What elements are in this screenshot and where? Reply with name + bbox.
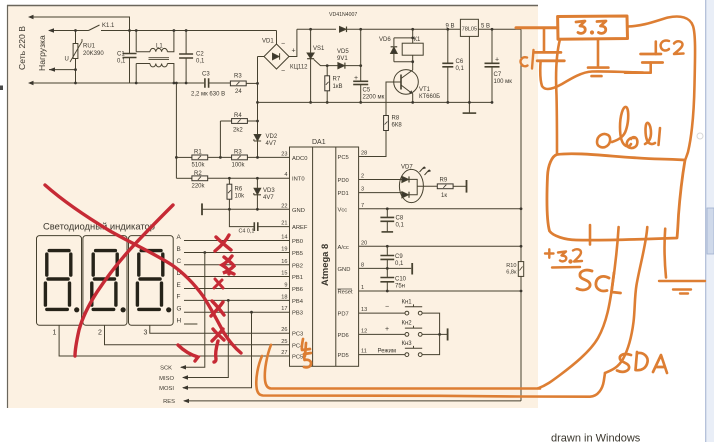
- svg-text:2k2: 2k2: [233, 128, 243, 134]
- svg-text:2200 мк: 2200 мк: [363, 95, 385, 101]
- small x mark 5: [212, 329, 224, 341]
- terminal bar buttons: [447, 328, 449, 340]
- module box hand-drawn: [547, 154, 685, 240]
- svg-text:PC5: PC5: [338, 155, 349, 161]
- red hook mark: [178, 345, 198, 361]
- svg-text:Сеть 220 В: Сеть 220 В: [17, 26, 27, 70]
- button Kn2: [405, 333, 409, 337]
- box 3.3 regulator: [558, 16, 628, 39]
- varistor RU1: [75, 31, 77, 84]
- svg-text:20: 20: [361, 240, 367, 246]
- capacitor C3 (in bottom rail): [205, 78, 209, 88]
- svg-text:11: 11: [361, 349, 367, 355]
- svg-text:7: 7: [361, 203, 364, 209]
- wire load lower stub: [49, 69, 76, 71]
- svg-text:3: 3: [361, 187, 364, 193]
- svg-text:MISO: MISO: [159, 376, 174, 382]
- svg-text:3: 3: [144, 330, 148, 337]
- svg-text:R1: R1: [194, 150, 202, 156]
- wire mains top rail: [30, 17, 130, 30]
- svg-text:1: 1: [53, 330, 57, 337]
- svg-text:19: 19: [281, 247, 287, 253]
- svg-text:1кВ: 1кВ: [333, 84, 343, 90]
- svg-text:C9: C9: [395, 254, 403, 260]
- svg-text:22: 22: [281, 203, 287, 209]
- svg-text:24: 24: [235, 89, 242, 95]
- svg-text:SCK: SCK: [160, 366, 172, 372]
- capacitor C5 2200u: [360, 29, 362, 102]
- svg-text:PB3: PB3: [292, 311, 303, 317]
- svg-text:H: H: [177, 317, 182, 324]
- wire C1 bottom meander to gnd line: [540, 61, 643, 89]
- svg-text:RES: RES: [163, 399, 175, 405]
- wire rail to L1 and C2: [130, 30, 277, 32]
- digit2 select wire to PC4: [105, 325, 290, 345]
- MOSI wire: [183, 312, 252, 388]
- svg-text:A/cc: A/cc: [338, 245, 349, 251]
- svg-text:PD5: PD5: [338, 353, 349, 359]
- svg-text:75н: 75н: [395, 284, 405, 290]
- zener VD5 9V1: [338, 63, 345, 69]
- SCK wire: [181, 253, 205, 368]
- small dark artifact left margin: [0, 86, 3, 91]
- zener VD2 4V7: [254, 135, 261, 141]
- pin 28 PC5 wire to R8: [359, 142, 386, 157]
- pin 1 Reset wire to rail: [359, 290, 521, 292]
- base wire to R8: [386, 82, 401, 116]
- svg-text:L1: L1: [156, 44, 163, 50]
- small x mark 4 (G row): [211, 301, 224, 316]
- svg-text:U: U: [65, 57, 69, 63]
- svg-text:0,1: 0,1: [396, 223, 405, 229]
- svg-text:100 мк: 100 мк: [494, 79, 513, 85]
- svg-text:Кн2: Кн2: [402, 321, 413, 327]
- small x mark 3 (E row): [214, 279, 223, 288]
- svg-text:+: +: [385, 326, 389, 333]
- capacitor C8: [386, 209, 388, 232]
- pin 8 GND wire: [359, 267, 412, 269]
- wire load rail with K1.1 gap: [49, 30, 130, 32]
- svg-text:4V7: 4V7: [266, 141, 277, 147]
- svg-text:PD7: PD7: [338, 312, 349, 318]
- svg-text:VD6: VD6: [379, 37, 391, 43]
- diode VD6: [394, 38, 413, 62]
- segment row H stub: [184, 323, 197, 325]
- long wire B from PC5 pin: [256, 356, 605, 397]
- svg-text:78L05: 78L05: [462, 27, 478, 33]
- LED pair VD7: [399, 169, 423, 202]
- svg-text:Кн3: Кн3: [402, 341, 413, 347]
- resistor R3 24: [230, 81, 246, 86]
- text SCL: [577, 270, 621, 293]
- svg-text:DA1: DA1: [312, 139, 326, 146]
- segment row F: [184, 299, 290, 301]
- svg-text:5 В: 5 В: [481, 24, 490, 30]
- svg-text:6К8: 6К8: [392, 123, 403, 129]
- svg-text:R7: R7: [333, 77, 341, 83]
- module pin4 to gnd: [665, 229, 666, 278]
- pin 7 Vcc wire to rail: [359, 208, 521, 210]
- regulator ground pin: [468, 36, 470, 113]
- resistor R8 6K8: [384, 116, 389, 131]
- wire bridge-left vertical down to gnd rail: [257, 57, 259, 158]
- svg-text:PB5: PB5: [292, 251, 303, 257]
- wire R3 to bridge left vertical: [246, 82, 257, 84]
- MISO wire: [183, 300, 228, 377]
- digit 8 patterns: [45, 251, 79, 313]
- svg-text:PC3: PC3: [292, 332, 303, 338]
- GND row pin22: [202, 208, 289, 210]
- svg-text:B: B: [177, 246, 181, 253]
- module pin3 + SDA wire down joining long wire B: [605, 227, 647, 373]
- resistor network: R1 row to ADC0: [175, 83, 177, 178]
- text 3.3 handwritten: [576, 21, 585, 33]
- svg-text:R9: R9: [440, 178, 448, 184]
- svg-text:MOSI: MOSI: [159, 386, 174, 392]
- diode VD4 1N4007: [340, 27, 347, 33]
- thyristor VS1: [310, 29, 312, 102]
- segment row A: [184, 240, 290, 242]
- ground rail (dc minus): [258, 101, 493, 103]
- svg-text:25: 25: [281, 339, 287, 345]
- ground symbol: [463, 112, 477, 114]
- svg-text:18: 18: [281, 294, 287, 300]
- resistor R4 2k2: [220, 121, 231, 157]
- resistor R6 10k: [228, 178, 230, 209]
- svg-text:PB6: PB6: [292, 287, 303, 293]
- chip left column labels: [292, 156, 308, 361]
- svg-text:R3: R3: [234, 150, 242, 156]
- module pin2 + SCL wire down-left joining long wire A: [538, 227, 619, 388]
- svg-text:PD1: PD1: [338, 191, 349, 197]
- svg-text:VD1: VD1: [262, 39, 274, 45]
- right supply rail: [520, 29, 522, 401]
- svg-text:0,1: 0,1: [456, 66, 465, 72]
- svg-text:INT0: INT0: [292, 177, 305, 183]
- pin 2 PD0 wire: [359, 179, 402, 181]
- svg-text:Reset: Reset: [338, 290, 354, 296]
- chip DA1 box: [290, 147, 359, 366]
- svg-text:C6: C6: [456, 59, 464, 65]
- wire C3 to R3: [209, 82, 231, 84]
- svg-text:G: G: [177, 306, 182, 313]
- small x mark 6 descender: [214, 341, 218, 362]
- segment row G: [184, 311, 290, 313]
- svg-text:+: +: [354, 75, 358, 82]
- svg-text:17: 17: [281, 306, 287, 312]
- svg-text:PB1: PB1: [292, 275, 303, 281]
- display box digit2: [83, 236, 127, 326]
- regulator 78L05 box: [460, 19, 478, 36]
- capacitor C7 100u: [491, 29, 493, 102]
- svg-text:14: 14: [281, 235, 287, 241]
- label R10 6,8k: [506, 263, 517, 276]
- RES wire: [184, 400, 521, 402]
- text +3.2: [545, 249, 566, 261]
- text SDA: [617, 352, 667, 373]
- AREF row pin21 with C4: [229, 209, 254, 226]
- svg-text:GND: GND: [338, 267, 351, 273]
- chip right column labels: [338, 155, 354, 359]
- wire 5V rail overdraw to 3.3 box: [516, 26, 558, 29]
- svg-text:VD2: VD2: [266, 134, 278, 140]
- svg-text:R2: R2: [194, 171, 202, 177]
- svg-text:КЦ112: КЦ112: [290, 65, 308, 71]
- button rows pins 13 12 11: [359, 312, 405, 314]
- labels A-H: [177, 234, 182, 324]
- capacitor C10: [386, 268, 388, 291]
- svg-text:9V1: 9V1: [337, 56, 348, 62]
- module pin 1: [589, 225, 592, 245]
- resistor R10 6.8k on rail: [518, 262, 523, 277]
- svg-text:1: 1: [361, 285, 364, 291]
- svg-text:C3: C3: [202, 72, 210, 78]
- svg-text:RU1: RU1: [83, 44, 96, 50]
- svg-text:K1.1: K1.1: [102, 23, 115, 29]
- wire bridge top vertex up: [276, 31, 278, 45]
- resistor R3 100k: [232, 155, 248, 160]
- svg-text:28: 28: [361, 151, 367, 157]
- svg-text:C: C: [177, 258, 182, 265]
- capacitor C9: [386, 246, 388, 268]
- long wire A from PC4 pin: [265, 345, 540, 389]
- svg-text:PD6: PD6: [338, 333, 349, 339]
- svg-text:100k: 100k: [232, 163, 246, 169]
- capacitor C1 hand: [543, 28, 546, 52]
- transistor VT1 KT660: [394, 70, 419, 95]
- terminal bar right of R9: [466, 180, 468, 193]
- digit1 select wire to PC5: [59, 325, 289, 356]
- segment row C: [184, 264, 290, 266]
- svg-text:C1: C1: [117, 52, 125, 58]
- Reset overline: [338, 288, 353, 290]
- svg-text:R8: R8: [392, 116, 400, 122]
- svg-text:КТ660Б: КТ660Б: [419, 94, 440, 100]
- relay K1 branch vertical: [412, 29, 414, 43]
- digit3 select wire to PC3: [150, 325, 290, 333]
- svg-text:C5: C5: [363, 88, 371, 94]
- svg-text:AREF: AREF: [292, 225, 308, 231]
- svg-text:20K390: 20K390: [83, 51, 104, 57]
- svg-text:PD0: PD0: [338, 178, 349, 184]
- big X stroke down-right: [45, 185, 241, 353]
- svg-text:+: +: [495, 57, 499, 64]
- svg-text:0,1: 0,1: [117, 59, 126, 65]
- capacitor C2: [185, 31, 187, 84]
- svg-text:PB2: PB2: [292, 263, 303, 269]
- svg-text:Режим: Режим: [378, 349, 397, 355]
- wire mains bottom rail: [30, 82, 204, 84]
- svg-text:drawn in Windows: drawn in Windows: [551, 433, 641, 442]
- segment row D: [184, 276, 290, 278]
- svg-text:C4 0,1: C4 0,1: [239, 229, 255, 235]
- svg-text:VD7: VD7: [401, 165, 413, 171]
- svg-text:8: 8: [361, 262, 364, 268]
- resistor R2 220k: [176, 177, 192, 179]
- svg-text:0,1: 0,1: [196, 59, 205, 65]
- relay K1 coil box: [402, 43, 423, 55]
- svg-text:13: 13: [361, 307, 367, 313]
- resistor R9 1k: [437, 184, 453, 189]
- svg-text:R6: R6: [235, 187, 243, 193]
- tiny gray ring right margin: [697, 133, 703, 139]
- svg-text:VS1: VS1: [313, 46, 325, 52]
- svg-text:F: F: [177, 294, 181, 301]
- svg-text:VD3: VD3: [263, 188, 275, 194]
- ground under 3.3 box: [597, 39, 600, 66]
- svg-text:ADC0: ADC0: [292, 156, 307, 162]
- chip pin numbers left: [281, 152, 287, 357]
- svg-text:2,2 мк 630 В: 2,2 мк 630 В: [191, 92, 225, 98]
- small x mark 2 (C-D rows): [222, 256, 234, 274]
- svg-text:R10: R10: [506, 263, 516, 269]
- pin 3 PD1 wire: [359, 192, 402, 194]
- svg-text:16: 16: [281, 259, 287, 265]
- capacitor C2 hand: [654, 42, 657, 55]
- svg-text:6,8к: 6,8к: [506, 270, 517, 276]
- svg-text:2: 2: [361, 174, 364, 180]
- svg-text:Нагрузка: Нагрузка: [37, 35, 47, 71]
- text C2: [661, 41, 684, 54]
- button Kn1: [405, 311, 409, 315]
- frame left line: [7, 5, 9, 408]
- svg-text:VD41N4007: VD41N4007: [329, 12, 357, 18]
- scribble obol: [597, 107, 660, 148]
- svg-text:PC5: PC5: [292, 355, 303, 361]
- svg-text:10k: 10k: [235, 194, 246, 200]
- svg-text:PB0: PB0: [292, 239, 303, 245]
- svg-text:R4: R4: [234, 113, 242, 119]
- terminal bar pin8: [411, 263, 413, 275]
- svg-text:4: 4: [284, 172, 287, 178]
- svg-text:9: 9: [284, 283, 287, 289]
- segment row E: [184, 288, 290, 290]
- svg-text:C2: C2: [196, 52, 204, 58]
- svg-text:E: E: [177, 282, 181, 289]
- svg-text:C10: C10: [395, 277, 407, 283]
- svg-text:−: −: [281, 41, 285, 48]
- pin 20 AVcc wire to rail: [359, 245, 521, 247]
- svg-text:27: 27: [281, 350, 287, 356]
- svg-text:VT1: VT1: [419, 87, 431, 93]
- button Kn3: [405, 353, 409, 357]
- svg-text:1к: 1к: [441, 193, 447, 199]
- svg-text:C7: C7: [494, 72, 502, 78]
- wire bridge right vertex up to dc rail: [289, 29, 297, 56]
- big X stroke down-left: [75, 205, 173, 356]
- beige schematic panel: [7, 5, 538, 408]
- svg-text:Atmega 8: Atmega 8: [319, 244, 330, 286]
- svg-text:+: +: [292, 48, 296, 55]
- capacitor C6: [447, 29, 449, 102]
- text c1: [521, 50, 534, 69]
- svg-text:Кн1: Кн1: [402, 299, 413, 305]
- svg-text:C8: C8: [396, 216, 404, 222]
- squiggle on chip PC4: [302, 339, 310, 356]
- svg-text:К1: К1: [414, 37, 421, 43]
- svg-text:23: 23: [281, 152, 287, 158]
- svg-text:15: 15: [281, 271, 287, 277]
- wire 3.3 box down to module: [556, 39, 560, 154]
- display box digit1: [37, 236, 82, 326]
- scrollbar strip: [706, 0, 714, 442]
- frame top line: [7, 5, 538, 7]
- resistor R7 1k: [326, 66, 328, 103]
- small x mark 1 (B row): [215, 235, 231, 251]
- svg-text:21: 21: [281, 221, 287, 227]
- svg-text:VD5: VD5: [337, 49, 349, 55]
- svg-text:PB4: PB4: [292, 299, 304, 305]
- svg-text:510k: 510k: [192, 163, 206, 169]
- svg-text:12: 12: [361, 328, 367, 334]
- capacitor C1: [129, 31, 131, 84]
- svg-text:R3: R3: [234, 74, 242, 80]
- labels SCK MISO MOSI RES: [159, 366, 175, 406]
- svg-text:−: −: [385, 304, 389, 311]
- svg-text:26: 26: [281, 327, 287, 333]
- svg-text:2: 2: [98, 330, 102, 337]
- wire dc top rail: [297, 28, 336, 30]
- gnd symbol right: [659, 281, 705, 294]
- svg-text:220k: 220k: [192, 184, 206, 190]
- zener VD3 4V7: [256, 178, 258, 209]
- choke L1: [136, 31, 150, 52]
- svg-text:9 В: 9 В: [446, 24, 455, 30]
- svg-text:GND: GND: [292, 208, 305, 214]
- svg-text:4V7: 4V7: [263, 195, 274, 201]
- switch K1.1: [89, 25, 100, 31]
- wire box right to big arc: [628, 17, 696, 160]
- display box digit3: [129, 236, 174, 326]
- svg-text:Vcc: Vcc: [338, 207, 348, 213]
- chip pin numbers right: [361, 151, 367, 355]
- segment row B: [184, 252, 290, 254]
- svg-text:−: −: [281, 68, 285, 75]
- node at C1 junction: [128, 29, 131, 32]
- resistor R1 510k: [192, 155, 208, 160]
- bridge VD1 KЦ112: [258, 56, 265, 58]
- svg-text:A: A: [177, 234, 182, 241]
- svg-text:0,1: 0,1: [395, 261, 404, 267]
- squiggle on chip PC5: [304, 353, 311, 367]
